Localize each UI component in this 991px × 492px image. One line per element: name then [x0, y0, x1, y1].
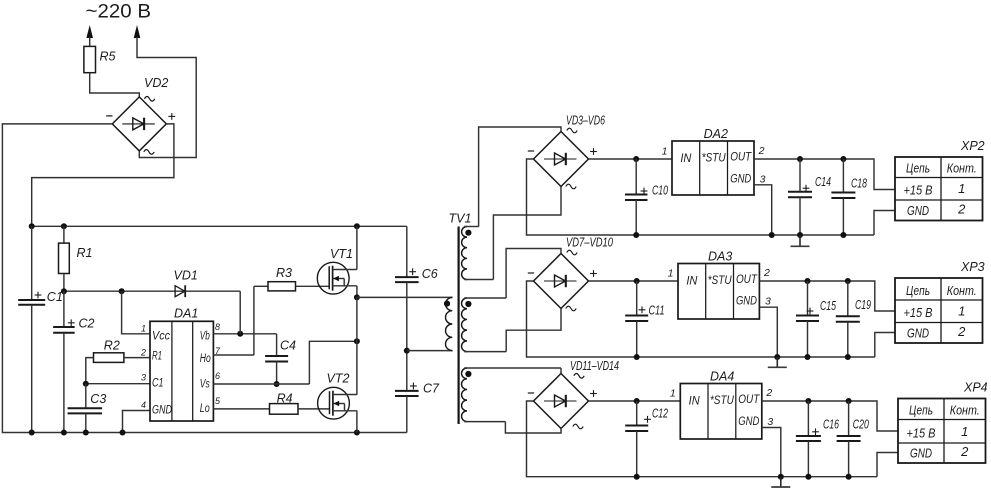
svg-text:2: 2 [140, 348, 146, 358]
svg-text:*STU: *STU [708, 275, 733, 287]
svg-text:2: 2 [758, 145, 765, 157]
svg-text:C11: C11 [649, 304, 665, 318]
svg-text:R2: R2 [104, 338, 120, 352]
svg-text:+15 В: +15 В [904, 305, 933, 320]
svg-text:IN: IN [686, 276, 698, 288]
svg-text:VT1: VT1 [330, 247, 353, 261]
svg-text:GND: GND [736, 296, 757, 308]
svg-text:1: 1 [668, 268, 674, 280]
svg-text:2: 2 [765, 387, 772, 399]
svg-text:*STU: *STU [710, 395, 735, 407]
svg-text:1: 1 [141, 323, 146, 333]
svg-text:1: 1 [670, 388, 676, 400]
svg-text:R5: R5 [100, 50, 116, 64]
svg-text:~220 В: ~220 В [86, 1, 152, 22]
svg-text:R1: R1 [77, 246, 93, 260]
svg-text:3: 3 [760, 173, 766, 185]
svg-text:VD11–VD14: VD11–VD14 [570, 359, 619, 373]
svg-text:Lo: Lo [200, 403, 210, 415]
svg-text:C2: C2 [79, 316, 95, 330]
svg-text:*STU: *STU [702, 153, 727, 165]
svg-text:DA3: DA3 [708, 250, 732, 264]
svg-text:OUT: OUT [736, 274, 758, 286]
svg-text:1: 1 [662, 146, 668, 158]
svg-text:C7: C7 [423, 381, 440, 395]
svg-text:R4: R4 [277, 391, 293, 405]
svg-text:C10: C10 [652, 184, 668, 198]
svg-text:IN: IN [689, 396, 701, 408]
svg-text:Конт.: Конт. [947, 283, 977, 298]
svg-text:3: 3 [141, 373, 146, 383]
svg-text:1: 1 [958, 304, 965, 319]
svg-text:Vcc: Vcc [152, 330, 170, 342]
svg-text:1: 1 [958, 181, 965, 196]
svg-text:VD2: VD2 [144, 76, 168, 90]
svg-text:1: 1 [961, 424, 968, 439]
svg-text:VD7–VD10: VD7–VD10 [566, 236, 613, 250]
svg-text:DA4: DA4 [710, 370, 734, 384]
svg-text:DA1: DA1 [174, 306, 198, 320]
svg-text:Ho: Ho [200, 353, 211, 365]
svg-text:OUT: OUT [738, 394, 760, 406]
svg-text:Цепь: Цепь [906, 283, 930, 298]
svg-text:2: 2 [957, 202, 966, 217]
svg-text:C1: C1 [47, 290, 63, 304]
svg-text:C6: C6 [422, 267, 438, 281]
svg-text:XP2: XP2 [960, 139, 985, 153]
svg-text:C1: C1 [152, 377, 164, 389]
svg-text:GND: GND [907, 203, 929, 218]
svg-text:4: 4 [141, 400, 146, 410]
svg-text:+15 В: +15 В [904, 183, 933, 198]
svg-text:R3: R3 [276, 266, 292, 280]
svg-text:2: 2 [960, 444, 969, 459]
svg-text:2: 2 [763, 267, 770, 279]
svg-text:C3: C3 [90, 392, 106, 406]
svg-text:Цепь: Цепь [909, 403, 933, 418]
svg-text:C4: C4 [280, 339, 296, 353]
svg-text:GND: GND [730, 173, 751, 185]
svg-text:XP4: XP4 [963, 381, 988, 395]
svg-text:GND: GND [910, 446, 932, 461]
svg-text:6: 6 [215, 371, 220, 381]
svg-text:C15: C15 [820, 299, 836, 313]
svg-text:+15 В: +15 В [907, 426, 936, 441]
svg-text:R1: R1 [152, 350, 162, 362]
svg-text:3: 3 [765, 296, 771, 308]
svg-text:TV1: TV1 [449, 212, 472, 226]
svg-text:GND: GND [907, 326, 929, 341]
svg-text:GND: GND [152, 404, 172, 416]
svg-text:Конт.: Конт. [950, 403, 980, 418]
svg-text:DA2: DA2 [704, 127, 728, 141]
svg-text:Цепь: Цепь [906, 161, 930, 176]
svg-text:2: 2 [957, 324, 966, 339]
svg-text:Vs: Vs [200, 379, 210, 391]
svg-text:C18: C18 [851, 177, 867, 191]
svg-text:OUT: OUT [730, 152, 752, 164]
svg-text:C14: C14 [815, 175, 831, 189]
svg-text:Конт.: Конт. [947, 161, 977, 176]
svg-text:C20: C20 [853, 417, 869, 431]
svg-text:VT2: VT2 [327, 371, 350, 385]
svg-text:VD3–VD6: VD3–VD6 [566, 114, 605, 128]
svg-text:8: 8 [215, 322, 220, 332]
svg-text:C19: C19 [855, 298, 871, 312]
svg-text:XP3: XP3 [960, 260, 985, 274]
svg-text:3: 3 [767, 416, 773, 428]
svg-text:C16: C16 [823, 417, 839, 431]
svg-text:Vb: Vb [200, 330, 210, 342]
svg-text:C12: C12 [652, 407, 668, 421]
svg-text:GND: GND [738, 416, 759, 428]
svg-text:IN: IN [680, 153, 692, 165]
svg-text:VD1: VD1 [174, 268, 198, 282]
